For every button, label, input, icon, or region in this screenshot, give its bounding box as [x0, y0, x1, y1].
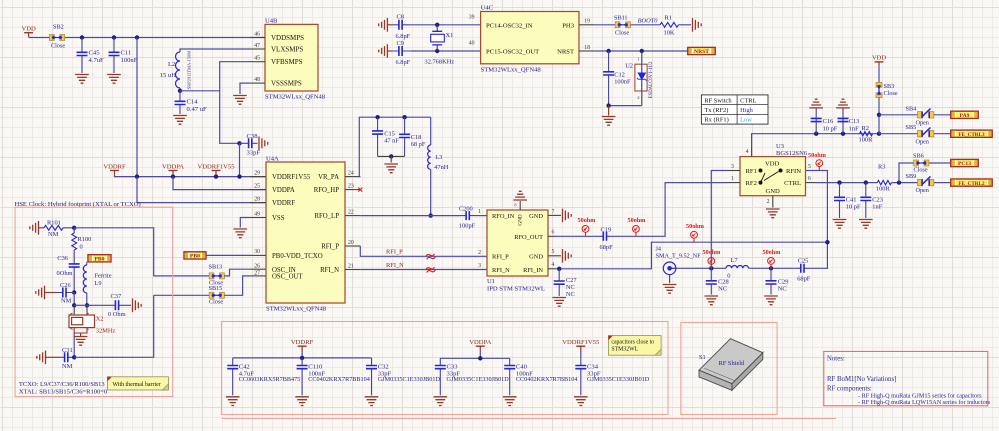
svg-text:VDDPA: VDDPA: [162, 163, 184, 170]
pin 45: [250, 61, 265, 63]
wire U3 VDD rail: [752, 134, 879, 147]
svg-text:RFI_N: RFI_N: [386, 262, 404, 269]
connector J4 SMA_T_9.52_NF: [663, 262, 676, 275]
wire C200 to pin 1: [475, 215, 487, 217]
svg-text:19: 19: [584, 19, 590, 25]
junction: [557, 267, 561, 271]
net label FE_CTRL2: [951, 179, 993, 187]
ground: [365, 397, 379, 406]
pin 4 RFI_IN wire: [548, 268, 556, 270]
svg-text:5: 5: [552, 249, 555, 255]
capacitor C28 NC: [710, 268, 712, 294]
svg-text:VSS: VSS: [272, 215, 285, 222]
svg-text:C29: C29: [778, 279, 789, 286]
svg-text:Close: Close: [51, 43, 65, 50]
RF shield region box: [681, 323, 777, 415]
capacitor C23 1nF: [865, 183, 867, 218]
svg-text:PC14-OSC32_IN: PC14-OSC32_IN: [486, 22, 533, 29]
junction: [435, 49, 439, 53]
svg-text:100nF: 100nF: [614, 79, 631, 86]
solder bridge SB3: [876, 82, 882, 97]
svg-text:RFO_HP: RFO_HP: [314, 187, 340, 194]
sticky note With thermal barrier: [107, 377, 168, 390]
solder bridge SB15: [209, 292, 224, 298]
ground: [259, 137, 268, 151]
svg-text:C19: C19: [601, 227, 612, 234]
svg-text:50ohm: 50ohm: [686, 223, 705, 230]
svg-text:CTRL: CTRL: [740, 97, 756, 104]
svg-text:4.7uF: 4.7uF: [89, 57, 105, 64]
svg-text:NC: NC: [566, 284, 575, 291]
junction: [402, 115, 406, 119]
svg-text:Open: Open: [916, 138, 929, 145]
wire SB4 to PA9: [934, 114, 951, 116]
svg-text:RFO_OUT: RFO_OUT: [514, 234, 543, 241]
svg-text:50ohm: 50ohm: [763, 249, 782, 256]
junction: [814, 132, 818, 136]
junction: [841, 132, 845, 136]
svg-text:50ohm: 50ohm: [808, 152, 827, 159]
svg-text:U2: U2: [625, 63, 633, 70]
svg-text:SB6: SB6: [913, 153, 924, 160]
svg-text:X2: X2: [96, 316, 104, 323]
svg-text:33pF: 33pF: [247, 150, 261, 157]
junction: [80, 35, 84, 39]
capacitor C42 4.7uF: [232, 358, 234, 395]
capacitor C25 68pF: [798, 267, 810, 269]
svg-text:S1: S1: [699, 354, 706, 361]
svg-text:0 Ohm: 0 Ohm: [108, 311, 126, 318]
svg-text:100R: 100R: [859, 136, 874, 143]
svg-text:SB5: SB5: [906, 124, 917, 131]
wire U2 pin2 to C12 ground node: [641, 91, 643, 106]
ground: [705, 296, 719, 305]
svg-text:R101: R101: [47, 219, 61, 226]
svg-text:R3: R3: [878, 164, 885, 171]
svg-text:C25: C25: [798, 258, 809, 265]
svg-text:SB9: SB9: [906, 173, 917, 180]
wire R101 to node: [63, 227, 74, 229]
svg-text:5: 5: [808, 164, 811, 170]
svg-text:SMA_T_9.52_NF: SMA_T_9.52_NF: [656, 252, 702, 259]
wire R1 to ground: [679, 24, 692, 26]
svg-text:RFI_IN: RFI_IN: [523, 267, 543, 274]
svg-text:C32: C32: [378, 363, 389, 370]
wire VR_PA riser: [359, 117, 430, 176]
svg-text:SB4: SB4: [906, 105, 917, 112]
capacitor C12 100nF: [608, 51, 610, 106]
svg-text:VDDSMPS: VDDSMPS: [271, 34, 304, 42]
junction: [825, 240, 829, 244]
svg-text:45: 45: [254, 56, 260, 62]
svg-text:20: 20: [348, 240, 354, 246]
pin 47: [250, 48, 265, 50]
svg-text:C41: C41: [846, 197, 857, 204]
wire L2 to VFB node: [179, 88, 181, 91]
ground: [379, 18, 388, 32]
svg-text:C27: C27: [566, 277, 577, 284]
svg-text:Close: Close: [209, 299, 223, 306]
svg-text:100pF: 100pF: [459, 222, 476, 229]
capacitor C200 100pF: [461, 215, 476, 217]
capacitor C15 47nF: [377, 117, 379, 156]
wire PH3 to SB11: [594, 24, 615, 26]
svg-text:RFI_N: RFI_N: [320, 267, 339, 274]
wire VDDRF vertical from VDD rail: [136, 38, 138, 177]
svg-text:FE_CTRL3: FE_CTRL3: [958, 132, 985, 138]
svg-text:0Ohm: 0Ohm: [57, 270, 73, 277]
RF switch table: [701, 95, 768, 124]
wire SB15 to pin 27: [224, 276, 250, 295]
IC U4B STM32WLxx_QFN48 (SMPS pins): [265, 24, 318, 91]
svg-text:C34: C34: [587, 363, 599, 370]
svg-text:STM32WLxx_QFN48: STM32WLxx_QFN48: [266, 306, 327, 313]
svg-text:NM: NM: [62, 363, 73, 370]
svg-text:- RF High-Q muRata LQW15AN ser: - RF High-Q muRata LQW15AN series for in…: [858, 399, 991, 406]
junction: [300, 356, 304, 360]
solder bridge SB2: [49, 35, 64, 41]
svg-text:C12: C12: [614, 72, 625, 79]
wire up to SB6: [899, 163, 914, 183]
wire L3 to RFO_LP line: [430, 169, 432, 215]
svg-text:68pF: 68pF: [600, 244, 614, 251]
svg-text:24: 24: [348, 170, 354, 176]
RF shield S1 3D drawing: [699, 339, 764, 391]
pin 6 RFO_OUT wire: [548, 235, 556, 237]
svg-text:ESDALC6V1-1U2: ESDALC6V1-1U2: [649, 61, 654, 98]
svg-text:29: 29: [254, 170, 260, 176]
wire VDDRF branch down to pin 28: [137, 177, 265, 203]
svg-text:OSC_OUT: OSC_OUT: [272, 274, 303, 281]
svg-text:VDDPA: VDDPA: [272, 187, 295, 194]
pin 6 CTRL: [806, 182, 816, 184]
decoupling capacitors region box: [222, 322, 669, 415]
svg-text:27: 27: [254, 271, 260, 277]
svg-text:NM: NM: [48, 231, 59, 238]
ground: [133, 299, 142, 313]
solder bridge SB13: [209, 273, 224, 279]
wire RFO_OUT to C19: [556, 235, 601, 237]
svg-text:Open: Open: [916, 187, 929, 194]
svg-text:15 uH: 15 uH: [160, 72, 177, 79]
capacitor C9 6.8pF: [387, 50, 392, 52]
svg-text:U4A: U4A: [266, 155, 279, 162]
sticky note capacitors close to STM32WL: [608, 336, 661, 356]
svg-text:U4B: U4B: [265, 18, 278, 25]
pin 24: [345, 176, 360, 178]
svg-text:22: 22: [348, 209, 354, 215]
svg-text:4: 4: [746, 149, 749, 155]
svg-text:NRST: NRST: [557, 49, 574, 56]
capacitor C38 33pF: [240, 142, 258, 144]
svg-text:C45: C45: [89, 50, 101, 57]
wire SB11 to R1: [630, 24, 660, 26]
ground: [434, 397, 448, 406]
svg-text:VSSSMPS: VSSSMPS: [271, 80, 302, 88]
capacitor C11: [113, 38, 115, 74]
ground: [107, 75, 121, 84]
capacitor C36: [73, 261, 75, 276]
pin 2 GND: [772, 196, 774, 208]
svg-text:1nF: 1nF: [872, 204, 882, 211]
wire R3 to SB9: [891, 182, 917, 184]
svg-text:STM32WLxx_QFN48: STM32WLxx_QFN48: [265, 94, 326, 101]
junction: [877, 113, 881, 117]
ground: [574, 397, 588, 406]
svg-text:6: 6: [552, 230, 555, 236]
differential pair marker on RFI_P: [425, 253, 435, 261]
svg-text:40: 40: [469, 41, 475, 47]
svg-text:NC: NC: [566, 291, 575, 298]
inductor L7 0: [726, 265, 749, 268]
svg-text:CC0402KRX7R7BB104: CC0402KRX7R7BB104: [516, 376, 578, 383]
svg-text:L7: L7: [731, 257, 739, 264]
svg-text:PC15-OSC32_OUT: PC15-OSC32_OUT: [486, 49, 539, 56]
ground: [552, 298, 566, 307]
wire NRST net: [594, 50, 688, 52]
wire PB0 to pin 30: [206, 254, 250, 256]
wire C31 node to OSC_OUT branch: [74, 295, 154, 357]
ground: [80, 333, 82, 336]
svg-text:GJM0335C1E330JB01D: GJM0335C1E330JB01D: [447, 376, 510, 383]
svg-text:7: 7: [552, 209, 555, 215]
wire C25 to RFIN riser: [806, 171, 828, 269]
svg-text:RFI_P: RFI_P: [321, 244, 339, 251]
50ohm impedance probe: [582, 226, 589, 237]
svg-text:VDD: VDD: [21, 26, 36, 33]
capacitor C8 6.8pF: [387, 24, 392, 26]
svg-text:L2: L2: [168, 61, 175, 68]
solder bridge SB5 Open: [917, 128, 933, 137]
ground: [75, 75, 89, 84]
svg-text:NM: NM: [61, 298, 72, 305]
svg-text:0: 0: [80, 244, 83, 251]
svg-text:Notes:: Notes:: [827, 356, 845, 363]
svg-text:U1: U1: [487, 278, 495, 285]
svg-text:RFI_P: RFI_P: [386, 248, 403, 255]
svg-text:TCXO: L9/C37/C36/R100/SB13: TCXO: L9/C37/C36/R100/SB13: [19, 381, 105, 388]
solder bridge SB11: [615, 22, 630, 28]
wire pin 48 VSS to ground: [240, 83, 250, 94]
svg-text:GND: GND: [529, 213, 543, 220]
svg-text:CTRL: CTRL: [784, 180, 801, 187]
svg-text:BOOT0: BOOT0: [638, 18, 659, 25]
svg-text:49: 49: [254, 211, 260, 217]
svg-text:C38: C38: [247, 133, 259, 140]
svg-text:VDDPA: VDDPA: [469, 339, 491, 346]
svg-text:PB0: PB0: [95, 257, 105, 263]
junction: [237, 141, 241, 145]
ground: [226, 397, 240, 406]
pin 48: [250, 82, 265, 84]
net label PB0: [184, 252, 206, 260]
svg-text:RF2: RF2: [746, 180, 757, 187]
capacitor C19 68pF: [601, 235, 613, 237]
pin 8 top ground: [519, 201, 521, 210]
solder bridge SB9 Open: [917, 176, 933, 185]
svg-text:SB13: SB13: [209, 264, 223, 271]
wire crystal bottom pins: [74, 328, 87, 333]
svg-text:C16: C16: [823, 118, 834, 125]
ground: [233, 96, 247, 105]
IC U4A STM32WLxx_QFN48 (RF pins): [266, 162, 345, 303]
junction: [606, 103, 610, 107]
svg-text:BGS12SN6: BGS12SN6: [776, 150, 808, 157]
svg-text:C200: C200: [459, 205, 473, 212]
switch contacts inside U3: [759, 169, 782, 184]
ground: [30, 221, 39, 235]
svg-text:47 nF: 47 nF: [384, 138, 399, 145]
svg-text:XTAL: SB13/SB15/C36=R100=0: XTAL: SB13/SB15/C36=R100=0: [19, 388, 107, 395]
wire joining C15 C18 grounds: [378, 155, 405, 157]
svg-text:26: 26: [254, 264, 260, 270]
pin 3 RF1: [727, 170, 740, 172]
svg-text:NC: NC: [778, 286, 787, 293]
wire C26 node down to crystal node: [73, 293, 75, 306]
svg-text:Close: Close: [615, 30, 629, 37]
svg-text:46: 46: [254, 31, 260, 37]
svg-text:50ohm: 50ohm: [578, 217, 597, 224]
pin 46: [250, 37, 265, 39]
svg-text:2: 2: [478, 250, 481, 256]
wire OSC_IN from left to SB13: [154, 229, 210, 276]
svg-text:CC0402KRX7R7BB104: CC0402KRX7R7BB104: [308, 376, 370, 383]
svg-text:6.8pF: 6.8pF: [396, 59, 411, 66]
svg-text:RF Switch: RF Switch: [704, 97, 732, 104]
wire C8 to pin 39: [410, 24, 480, 26]
svg-text:STM32WL: STM32WL: [611, 347, 638, 353]
pin 30: [250, 254, 266, 256]
wire C38 node down to VDDRF1V55 rail: [239, 143, 241, 176]
svg-text:VDD: VDD: [872, 55, 887, 62]
capacitor C26 NM: [36, 286, 45, 300]
wire SB13 to pin 26: [224, 269, 250, 276]
junction: [72, 303, 76, 307]
solder bridge SB6 Close: [914, 160, 929, 166]
no connect X on RFO_HP: [358, 188, 362, 192]
svg-text:47nH: 47nH: [434, 164, 449, 171]
svg-text:C33: C33: [447, 363, 459, 370]
svg-text:C36: C36: [57, 255, 68, 262]
svg-text:C28: C28: [718, 279, 729, 286]
wire SMPS output down to C38 node: [220, 91, 240, 144]
svg-text:Low: Low: [740, 117, 752, 124]
pin 18: [579, 50, 594, 52]
svg-text:R1: R1: [665, 15, 672, 22]
svg-text:U4C: U4C: [481, 5, 494, 12]
pin 26: [250, 268, 266, 270]
wire to SB4: [879, 114, 918, 116]
pin 23: [345, 189, 360, 191]
ground: [295, 397, 309, 406]
ground: [234, 229, 248, 238]
svg-text:High: High: [740, 107, 754, 114]
resistor R2 100R: [860, 132, 873, 136]
capacitor C29 NC: [770, 268, 772, 294]
junction: [171, 174, 175, 178]
svg-text:FE_CTRL2: FE_CTRL2: [958, 181, 985, 187]
pin 5 to ground: [548, 255, 561, 257]
svg-text:68pF: 68pF: [797, 276, 811, 283]
inductor L3 47nH: [430, 117, 432, 145]
net label NRST: [688, 47, 716, 55]
50ohm impedance probe: [816, 160, 823, 171]
junction: [237, 174, 241, 178]
junction: [72, 226, 76, 230]
svg-text:GND: GND: [518, 214, 524, 225]
capacitor C13 1nF (ground above): [836, 99, 850, 108]
svg-text:SB15: SB15: [209, 285, 223, 292]
wire VDDRF decoupling rail: [301, 351, 303, 358]
junction: [72, 355, 76, 359]
junction: [72, 290, 76, 294]
svg-text:L3: L3: [435, 154, 442, 161]
svg-text:RFIN: RFIN: [786, 168, 801, 175]
svg-text:C14: C14: [187, 99, 199, 106]
wire RFI_IN to antenna node: [556, 242, 827, 269]
capacitor C33 33pF: [439, 358, 441, 395]
svg-text:32.768KHz: 32.768KHz: [425, 59, 455, 66]
svg-text:X1: X1: [446, 32, 454, 39]
junction: [214, 174, 218, 178]
resistor R101 NM: [39, 227, 45, 229]
svg-text:RFI_P: RFI_P: [492, 254, 509, 261]
junction: [85, 303, 89, 307]
svg-text:Open: Open: [916, 119, 929, 126]
svg-text:C15: C15: [384, 131, 395, 138]
svg-text:0: 0: [727, 273, 730, 280]
ground: [833, 220, 847, 229]
wire crystal node: [74, 304, 87, 306]
junction: [478, 356, 482, 360]
wire pin 49 VSS to ground: [240, 218, 250, 228]
crystal X2 32MHz: [73, 305, 75, 315]
50ohm impedance probe: [768, 258, 775, 269]
crystal X1 32.768KHz: [436, 25, 438, 32]
pin 4 VDD: [751, 147, 753, 157]
wire L9 to crystal node: [86, 293, 88, 305]
capacitor C40 100nF: [509, 358, 511, 395]
ground: [859, 220, 873, 229]
ground: [764, 296, 778, 305]
ground: [766, 209, 780, 218]
svg-text:GJM0335C1E330JB01D: GJM0335C1E330JB01D: [587, 376, 650, 383]
svg-text:C37: C37: [111, 293, 122, 300]
svg-text:GJM0335C1E330JB01D: GJM0335C1E330JB01D: [378, 376, 441, 383]
svg-text:10 pF: 10 pF: [823, 126, 838, 133]
svg-text:28: 28: [254, 196, 260, 202]
resistor R1 10K: [660, 22, 679, 27]
svg-text:VDDRF: VDDRF: [291, 339, 314, 346]
svg-text:capacitors close to: capacitors close to: [611, 340, 654, 346]
svg-text:C42: C42: [239, 363, 250, 370]
wire VFB node to pin 45: [180, 62, 250, 91]
wire CTRL line: [815, 182, 877, 184]
wire C19 to RF2: [612, 183, 727, 237]
capacitor C14 0.47uF: [179, 91, 181, 114]
svg-text:PH3: PH3: [562, 22, 574, 29]
svg-text:VDDRF1V55: VDDRF1V55: [562, 339, 600, 346]
wire RFO_LP to C200: [360, 215, 460, 217]
ground: [503, 397, 517, 406]
ground: [693, 18, 702, 32]
differential pair marker on RFI_N: [425, 266, 435, 274]
wire VDDRF stub to rail: [115, 175, 266, 177]
junction: [640, 49, 644, 53]
resistor R3 100R: [877, 180, 891, 184]
svg-text:6.8pF: 6.8pF: [396, 33, 411, 40]
wire VDD to SB2: [29, 37, 50, 39]
